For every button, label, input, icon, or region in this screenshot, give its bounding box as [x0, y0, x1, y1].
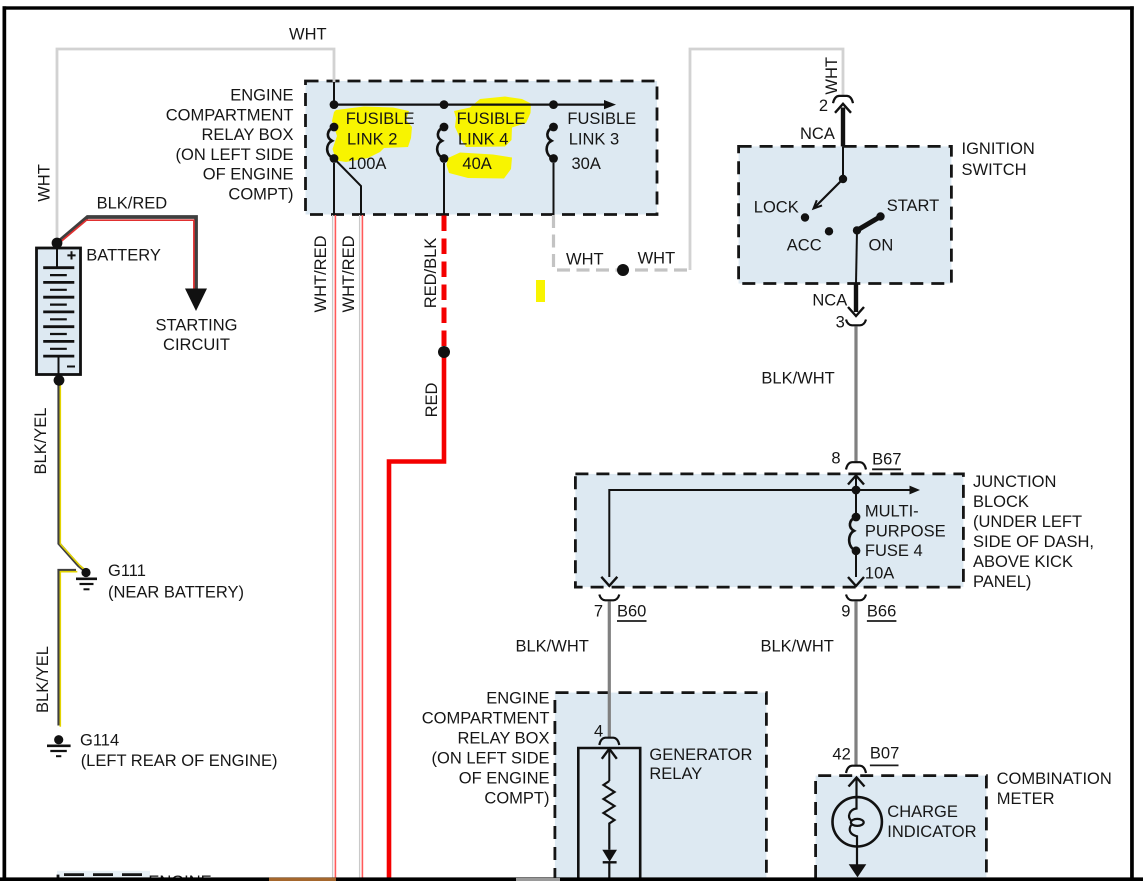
svg-text:OF ENGINE: OF ENGINE	[459, 770, 550, 788]
generator relay resistor coil	[604, 781, 615, 850]
svg-text:BLK/YEL: BLK/YEL	[32, 408, 50, 475]
label JUNCTION BLOCK	[973, 473, 1094, 591]
label 4	[594, 723, 603, 741]
svg-text:ENGINE: ENGINE	[230, 87, 293, 105]
label LOCK	[754, 198, 799, 216]
label FUSIBLE LINK 2 100A	[346, 110, 415, 173]
svg-text:SWITCH: SWITCH	[962, 161, 1027, 179]
ignition switch LOCK contact dot	[801, 213, 809, 221]
battery plates	[43, 268, 74, 356]
battery	[37, 248, 81, 375]
label GENERATOR RELAY	[649, 746, 752, 783]
svg-text:(ON LEFT SIDE: (ON LEFT SIDE	[176, 146, 294, 164]
label 42	[832, 745, 850, 763]
label 7	[594, 603, 603, 621]
svg-text:RED: RED	[423, 383, 441, 418]
svg-text:FUSIBLE: FUSIBLE	[457, 110, 526, 128]
label BLK/WHT lower left	[516, 638, 589, 656]
label COMBINATION METER	[997, 770, 1112, 808]
svg-text:WHT: WHT	[289, 26, 327, 44]
ground G114	[47, 735, 71, 756]
arrow to starting circuit	[185, 289, 207, 312]
svg-text:9: 9	[841, 603, 850, 621]
connector 2 of ignition switch	[833, 96, 853, 113]
svg-text:B60: B60	[617, 603, 646, 621]
svg-text:B07: B07	[870, 745, 899, 763]
connector 7 B60 symbol	[599, 595, 619, 601]
junction block entry arrow	[848, 476, 864, 491]
ignition switch wire to pivot	[842, 146, 844, 179]
svg-text:LOCK: LOCK	[754, 198, 799, 216]
svg-text:BLK/WHT: BLK/WHT	[761, 370, 834, 388]
splice dot on WHT wire	[617, 264, 629, 276]
svg-text:BLK/WHT: BLK/WHT	[761, 638, 834, 656]
svg-text:B67: B67	[872, 451, 901, 469]
label WHT/RED right	[340, 235, 358, 312]
svg-text:7: 7	[594, 603, 603, 621]
wire BLK/YEL branch to G114	[59, 571, 77, 727]
svg-text:ENGINE: ENGINE	[486, 690, 549, 708]
wire WHT/RED right	[360, 215, 363, 878]
connector 3 of ignition switch	[846, 307, 866, 325]
svg-text:SIDE OF DASH,: SIDE OF DASH,	[973, 533, 1094, 551]
svg-text:COMPARTMENT: COMPARTMENT	[422, 710, 550, 728]
wire NCA out of ignition switch	[854, 284, 858, 313]
label BLK/YEL upper	[32, 408, 50, 475]
svg-text:(LEFT REAR OF ENGINE): (LEFT REAR OF ENGINE)	[81, 752, 278, 770]
label G114	[80, 731, 278, 770]
label WHT splice right	[638, 250, 676, 268]
wire WHT/RED left	[333, 215, 336, 878]
svg-text:INDICATOR: INDICATOR	[887, 823, 976, 841]
wire stub into relay box at fusible link 2	[333, 82, 335, 105]
svg-text:COMPT): COMPT)	[484, 790, 549, 808]
label STARTING CIRCUIT	[156, 317, 238, 354]
svg-text:8: 8	[831, 450, 840, 468]
label RED	[423, 383, 441, 418]
ignition switch pivot and arm toward LOCK	[814, 175, 848, 209]
svg-text:STARTING: STARTING	[156, 317, 238, 335]
label 8	[831, 450, 840, 468]
wire BLK/WHT junction block to combination meter	[854, 602, 857, 766]
label ACC	[787, 236, 822, 254]
svg-text:COMPARTMENT: COMPARTMENT	[166, 106, 294, 124]
label BLK/WHT lower right	[761, 638, 834, 656]
label B60	[617, 603, 647, 622]
label B66	[867, 603, 897, 622]
wire WHT battery to fusible link bus	[57, 49, 334, 243]
svg-text:COMBINATION: COMBINATION	[997, 770, 1112, 788]
label ENGINE bottom	[148, 873, 211, 881]
multi-purpose fuse 4 10A	[848, 490, 864, 586]
svg-text:FUSE 4: FUSE 4	[865, 542, 923, 560]
svg-text:WHT/RED: WHT/RED	[340, 235, 358, 312]
generator relay entry arrow	[602, 749, 617, 781]
svg-text:ACC: ACC	[787, 236, 822, 254]
label WHT/RED left	[312, 235, 330, 312]
svg-text:PURPOSE: PURPOSE	[865, 522, 946, 540]
wire RED from splice down and left to bottom	[389, 352, 444, 878]
engine compartment relay box (top)	[306, 81, 658, 215]
label BLK/RED	[97, 195, 168, 213]
label NCA top	[800, 125, 835, 143]
combination meter exit arrow	[849, 864, 867, 877]
svg-text:PANEL): PANEL)	[973, 573, 1031, 591]
bottom edge band	[0, 877, 1143, 881]
svg-text:OF ENGINE: OF ENGINE	[203, 166, 294, 184]
svg-text:NCA: NCA	[812, 291, 847, 309]
svg-text:BATTERY: BATTERY	[86, 247, 161, 265]
svg-text:BLK/RED: BLK/RED	[97, 195, 168, 213]
battery negative terminal dot	[54, 375, 65, 386]
svg-text:WHT: WHT	[35, 164, 53, 202]
fusible link 3 (30A)	[547, 100, 558, 215]
generator relay diode arrow	[602, 850, 617, 878]
label WHT splice left	[566, 251, 604, 269]
combination meter entry arrow	[849, 778, 865, 798]
svg-text:NCA: NCA	[800, 125, 835, 143]
svg-text:RELAY: RELAY	[649, 765, 702, 783]
svg-text:ON: ON	[869, 237, 894, 255]
svg-text:LINK 3: LINK 3	[569, 131, 619, 149]
svg-text:ABOVE KICK: ABOVE KICK	[973, 553, 1073, 571]
wire BLK/WHT ignition to junction block	[854, 327, 857, 462]
highlight over fusible link 4	[447, 97, 532, 179]
charge indicator lamp	[833, 797, 882, 864]
fusible link bus wire with arrow	[334, 100, 616, 109]
label IGNITION SWITCH	[962, 140, 1035, 179]
svg-text:(ON LEFT SIDE: (ON LEFT SIDE	[432, 750, 550, 768]
generator relay outline	[578, 748, 640, 881]
svg-text:4: 4	[594, 723, 603, 741]
label WHT left vertical	[35, 164, 53, 202]
svg-text:FUSIBLE: FUSIBLE	[346, 110, 415, 128]
ignition switch ON-START bridge	[853, 212, 885, 234]
svg-text:START: START	[887, 197, 940, 215]
connector 42 B07 symbol	[846, 766, 866, 773]
label WHT at ignition	[823, 57, 841, 95]
wire WHT dashed from fusible link 3 to splice	[554, 215, 689, 270]
svg-text:FUSIBLE: FUSIBLE	[567, 110, 636, 128]
svg-text:WHT: WHT	[566, 251, 604, 269]
svg-text:CIRCUIT: CIRCUIT	[163, 336, 230, 354]
label FUSIBLE LINK 3 30A	[567, 110, 636, 173]
wire WHT splice to ignition switch connector 2	[690, 49, 843, 270]
ignition switch box	[739, 146, 952, 283]
label BATTERY	[86, 247, 161, 265]
svg-text:RELAY BOX: RELAY BOX	[201, 126, 293, 144]
junction block box	[575, 474, 963, 587]
connector 9 B66 symbol	[846, 595, 866, 601]
svg-text:JUNCTION: JUNCTION	[973, 473, 1056, 491]
label engine compartment relay box bottom	[422, 690, 550, 808]
svg-text:IGNITION: IGNITION	[962, 140, 1035, 158]
label MULTI-PURPOSE FUSE 4 10A	[865, 503, 946, 583]
svg-text:WHT: WHT	[638, 250, 676, 268]
svg-text:40A: 40A	[462, 155, 491, 173]
svg-text:42: 42	[832, 745, 850, 763]
svg-text:METER: METER	[997, 790, 1055, 808]
combination meter box	[816, 776, 987, 878]
svg-text:BLK/WHT: BLK/WHT	[516, 638, 589, 656]
svg-text:100A: 100A	[348, 155, 387, 173]
svg-text:(UNDER LEFT: (UNDER LEFT	[973, 513, 1082, 531]
svg-text:BLK/YEL: BLK/YEL	[34, 646, 52, 713]
svg-text:CHARGE: CHARGE	[887, 803, 958, 821]
wire BLK/RED battery to starting circuit	[55, 217, 196, 291]
splice dot on RED wire	[438, 346, 450, 358]
battery positive terminal dot	[52, 238, 63, 249]
fusible link 2 (100A)	[327, 100, 361, 215]
connector 4 symbol	[599, 738, 619, 745]
label BLK/YEL lower	[34, 646, 52, 713]
fusible link 4 (40A)	[437, 100, 448, 215]
svg-text:RELAY BOX: RELAY BOX	[457, 730, 549, 748]
engine compartment relay box (bottom)	[555, 693, 767, 881]
svg-text:WHT/RED: WHT/RED	[312, 235, 330, 312]
wire RED/BLK dashed from fusible link 4	[442, 216, 447, 348]
svg-text:GENERATOR: GENERATOR	[649, 746, 752, 764]
label CHARGE INDICATOR	[887, 803, 976, 841]
ground G111	[76, 568, 97, 589]
junction block internal bus and dot	[609, 486, 920, 577]
label START	[887, 197, 940, 215]
ignition switch output wire from ON	[856, 230, 857, 283]
label WHT top	[289, 26, 327, 44]
small yellow highlight mark near WHT splice	[536, 280, 545, 302]
svg-text:WHT: WHT	[823, 57, 841, 95]
svg-text:MULTI-: MULTI-	[865, 503, 919, 521]
svg-text:2: 2	[819, 97, 828, 115]
highlight over fusible link 2	[332, 107, 412, 163]
wire BLK/WHT junction block to generator relay	[608, 602, 611, 738]
svg-text:G111: G111	[108, 562, 146, 580]
svg-text:LINK 2: LINK 2	[347, 131, 397, 149]
label G111	[108, 562, 244, 601]
svg-text:3: 3	[836, 314, 845, 332]
svg-text:G114: G114	[80, 731, 119, 749]
connector 8 B67 symbol	[846, 462, 866, 469]
label NCA bottom	[812, 291, 847, 309]
svg-text:B66: B66	[867, 603, 896, 621]
label B07	[870, 745, 899, 766]
svg-text:BLOCK: BLOCK	[973, 493, 1029, 511]
wire BLK/YEL battery to G111	[59, 380, 87, 572]
svg-text:30A: 30A	[572, 155, 601, 173]
label RED/BLK	[422, 238, 440, 309]
engine box (bottom left, cut off)	[57, 871, 150, 881]
label engine compartment relay box top	[166, 87, 294, 204]
label 3	[836, 314, 845, 332]
svg-text:LINK 4: LINK 4	[458, 131, 508, 149]
ignition switch ACC contact dot	[825, 227, 833, 235]
label 2	[819, 97, 828, 115]
wire NCA into ignition switch	[841, 108, 845, 147]
svg-text:10A: 10A	[865, 564, 894, 582]
label FUSIBLE LINK 4 40A	[457, 110, 526, 173]
label ON	[869, 237, 894, 255]
label BLK/WHT upper	[761, 370, 834, 388]
svg-text:RED/BLK: RED/BLK	[422, 238, 440, 309]
svg-text:(NEAR BATTERY): (NEAR BATTERY)	[108, 583, 244, 601]
svg-text:COMPT): COMPT)	[228, 186, 293, 204]
label 9	[841, 603, 850, 621]
label B67	[872, 451, 901, 470]
junction block left exit arrow to connector 7	[601, 577, 617, 586]
